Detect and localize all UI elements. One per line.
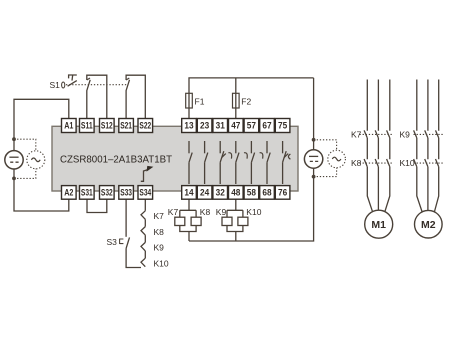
terminal S21 [119,119,134,133]
motor M2 [415,210,443,238]
terminal 14 [182,186,197,200]
svg-text:K9: K9 [154,243,165,253]
svg-text:57: 57 [247,121,256,131]
svg-text:K10: K10 [154,258,169,268]
wire loop S21-S22 [126,75,145,118]
contactor contact K7 phase 1 [364,130,367,138]
contactor coil K8 [191,217,201,225]
svg-text:S31: S31 [81,188,93,198]
terminal S33 [119,186,134,200]
right supply wire top [313,78,315,150]
junction dot right bottom [312,175,316,179]
auxiliary contact K7 in chain [141,211,145,227]
e-stop contact channel S21-S22 [126,78,129,119]
NC relay contact 31-32 [220,141,226,184]
svg-text:K10: K10 [400,158,415,168]
terminal 75 [275,119,290,133]
svg-text:M1: M1 [371,219,386,231]
wire K9/K10 coil split from terminal [227,199,243,217]
dotted link K7 [360,133,394,135]
terminal 68 [260,186,275,200]
svg-text:F2: F2 [241,97,251,107]
wire loop S11-S12 [87,75,107,118]
svg-text:S33: S33 [120,188,132,198]
relay body CZSR8001 [52,126,298,191]
S1 button head [62,82,65,88]
terminal S34 [138,186,153,200]
svg-text:67: 67 [262,121,271,131]
pushbutton S3 contact [126,237,129,248]
contactor contact K10 phase 2 [425,159,428,167]
delayed relay contact 47-48 [228,141,239,184]
svg-text:K10: K10 [246,207,261,217]
svg-text:75: 75 [278,121,287,131]
svg-text:A2: A2 [64,188,73,198]
wire A1 loop to supply [14,99,69,150]
phase line M1-3 [385,80,390,213]
wire S31-S32 link [87,199,107,212]
dotted link K9 [414,133,445,135]
AC source circle dotted (right) [328,150,346,168]
svg-text:S21: S21 [120,121,132,131]
mechanical link dotted S1 [66,84,128,86]
svg-text:S11: S11 [81,121,93,131]
wire S3 to chain bottom [126,248,141,267]
top supply bus [189,78,314,119]
svg-text:K9: K9 [400,130,411,140]
junction dot left top [12,137,16,141]
terminal S32 [100,186,115,200]
dotted link to AC alternative (left) [14,139,36,178]
delayed NC relay contact 75-76 [283,141,291,184]
contactor coil K10 [238,217,248,225]
svg-text:K8: K8 [200,207,211,217]
dotted link to AC alternative (right) [314,140,337,177]
motor M1 [365,210,393,238]
terminal S31 [80,186,95,200]
terminal A2 [62,186,77,200]
svg-text:58: 58 [247,188,256,198]
DC supply source circle (right) [304,150,322,168]
svg-text:S12: S12 [101,121,113,131]
AC source circle dotted (left) [27,151,45,169]
terminal 67 [260,119,275,133]
S3 actuator E [120,239,124,244]
contactor contact K7 phase 2 [375,130,378,138]
svg-text:S3: S3 [107,237,118,247]
contactor contact K8 phase 2 [375,159,378,167]
svg-text:14: 14 [184,188,194,198]
terminal 13 [182,119,197,133]
svg-text:47: 47 [231,121,240,131]
terminal 47 [229,119,244,133]
terminal A1 [62,119,77,133]
contactor contact K9 phase 1 [414,130,417,138]
auxiliary contact K8 in chain [141,227,145,243]
relay contact 13-14 [189,141,192,184]
DC supply source circle (left) [5,151,23,169]
fuse F1 [186,93,205,108]
terminal S12 [100,119,115,133]
contactor contact K10 phase 1 [414,159,417,167]
right supply wire bottom + bottom bus [189,168,314,241]
wire K7/K8 coil split from terminal [180,199,196,217]
svg-text:K7: K7 [168,207,179,217]
delayed relay contact 67-68 [260,141,271,184]
contactor contact K9 phase 3 [436,130,439,138]
contactor coil K9 [222,217,232,225]
wire S33 down [125,199,127,237]
svg-text:13: 13 [184,121,193,131]
auxiliary contact K10 in chain [141,258,145,267]
terminal 32 [213,186,228,200]
svg-text:M2: M2 [421,219,436,231]
svg-text:S34: S34 [139,188,151,198]
svg-text:A1: A1 [64,121,73,131]
delayed relay contact 57-58 [244,141,255,184]
svg-text:K9: K9 [216,207,227,217]
svg-text:24: 24 [200,188,210,198]
svg-text:S32: S32 [101,188,113,198]
svg-text:23: 23 [200,121,209,131]
terminal 57 [244,119,259,133]
contactor contact K10 phase 3 [436,159,439,167]
terminal 24 [197,186,212,200]
terminal 23 [197,119,212,133]
svg-text:K8: K8 [154,227,165,237]
svg-text:31: 31 [216,121,225,131]
phase line M2-3 [434,80,439,214]
contactor coil K7 [175,217,185,225]
terminal 48 [229,186,244,200]
svg-text:CZSR8001–2A1B3AT1BT: CZSR8001–2A1B3AT1BT [60,153,173,165]
svg-text:S22: S22 [139,121,151,131]
phase line M2-1 [417,80,423,214]
svg-text:K7: K7 [154,211,165,221]
svg-text:F1: F1 [195,97,205,107]
phase line M1-1 [367,80,373,213]
fuse F2 [233,93,252,108]
phase line M2-2 [427,80,429,212]
dotted link K10 [414,162,445,164]
coil join wires [227,226,243,242]
wire S34 down [144,199,146,211]
wire F2 branch [235,78,237,119]
svg-text:S1: S1 [50,80,61,90]
terminal 76 [275,186,290,200]
contactor contact K8 phase 1 [364,159,367,167]
terminal S11 [80,119,95,133]
manual reset arrow symbol [141,166,154,181]
S1 contact blade [68,81,77,87]
auxiliary contact K9 in chain [141,242,145,258]
S1 actuator [69,75,77,81]
terminal 31 [213,119,228,133]
relay contact 23-24 [205,141,208,184]
contactor contact K7 phase 3 [387,130,390,138]
e-stop contact channel S11-S12 [87,78,90,119]
phase line M1-2 [377,80,379,211]
svg-text:68: 68 [262,188,271,198]
svg-text:76: 76 [278,188,287,198]
wire supply to A2 [14,169,69,211]
coil join wires [180,226,196,242]
contactor contact K8 phase 3 [387,159,390,167]
svg-text:32: 32 [216,188,225,198]
contactor contact K9 phase 2 [425,130,428,138]
terminal 58 [244,186,259,200]
junction dot left bottom [12,177,16,181]
terminal S22 [138,119,153,133]
dotted link K8 [360,162,394,164]
junction dot right top [312,138,316,142]
svg-text:48: 48 [231,188,240,198]
